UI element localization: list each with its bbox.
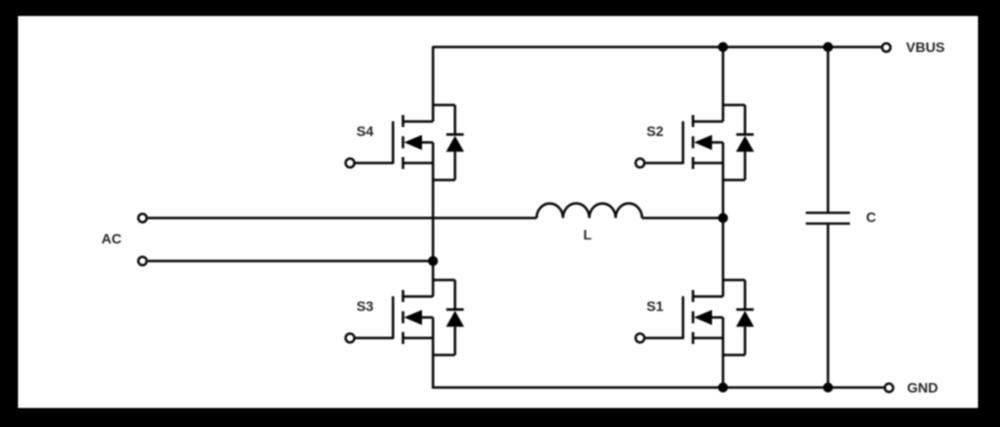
S4 gate terminal circle bbox=[346, 159, 355, 168]
wire S1 diode bottom connection bbox=[722, 354, 745, 357]
S4 channel dash (source) bbox=[402, 157, 405, 169]
transistor S1 (N-MOSFET) bbox=[636, 280, 754, 355]
junction S4/S3 midpoint node bbox=[428, 256, 438, 266]
wire S4 diode bottom connection bbox=[432, 179, 455, 182]
wire S1 body-to-source bbox=[722, 317, 725, 338]
svg-text:GND: GND bbox=[907, 380, 938, 396]
wire inductor to S2/S1 node bbox=[642, 217, 723, 220]
wire S3 source lead bbox=[403, 337, 433, 340]
S2 body diode cathode bar bbox=[736, 133, 753, 135]
inductor L bbox=[537, 203, 642, 218]
junction capacitor on GND rail bbox=[823, 383, 833, 393]
S2 channel dash (drain) bbox=[692, 115, 695, 127]
AC terminal 1 (line) bbox=[138, 214, 146, 222]
wire S2 diode anode lead bbox=[744, 152, 747, 180]
S4 body diode cathode bar bbox=[446, 133, 463, 135]
wire S2 diode bottom connection bbox=[722, 179, 745, 182]
S3 channel dash (body) bbox=[402, 311, 405, 323]
junction S2/S1 midpoint node bbox=[718, 213, 728, 223]
S3 body arrow (points to channel) bbox=[404, 310, 422, 325]
S2 gate terminal circle bbox=[636, 159, 645, 168]
wire VBUS top rail bbox=[432, 46, 882, 49]
wire S3 diode bottom connection bbox=[432, 354, 455, 357]
S2 channel dash (body) bbox=[692, 136, 695, 148]
svg-text:C: C bbox=[866, 209, 876, 225]
wire S4 gate lead bbox=[355, 162, 393, 165]
svg-text:S1: S1 bbox=[646, 298, 663, 314]
svg-text:S2: S2 bbox=[646, 123, 663, 139]
wire S1 source lead bbox=[693, 337, 723, 340]
svg-text:S3: S3 bbox=[356, 298, 373, 314]
wire S3 source to bottom rail bbox=[432, 338, 435, 389]
S4 channel dash (body) bbox=[402, 136, 405, 148]
S3 channel dash (source) bbox=[402, 332, 405, 344]
wire S2 gate lead bbox=[645, 162, 683, 165]
transistor S2 (N-MOSFET) bbox=[636, 105, 754, 180]
S4 body arrow (points to channel) bbox=[404, 135, 422, 150]
S1 gate bar bbox=[682, 296, 685, 339]
S1 body diode triangle bbox=[736, 311, 754, 327]
wire S1 diode cathode lead bbox=[744, 280, 747, 310]
S1 gate terminal circle bbox=[636, 334, 645, 343]
S3 body diode triangle bbox=[446, 311, 464, 327]
wire AC neutral to S4/S3 node bbox=[148, 260, 433, 263]
S1 channel dash (body) bbox=[692, 311, 695, 323]
wire S1 source to bottom rail bbox=[722, 338, 725, 389]
capacitor C bottom plate bbox=[806, 222, 850, 224]
wire S2 source lead bbox=[693, 162, 723, 165]
S1 channel dash (drain) bbox=[692, 290, 695, 302]
S2 gate bar bbox=[682, 121, 685, 164]
S3 channel dash (drain) bbox=[402, 290, 405, 302]
wire S3 body lead bbox=[419, 316, 433, 319]
wire S4 source to S3 drain bbox=[432, 163, 435, 297]
S3 gate terminal circle bbox=[346, 334, 355, 343]
wire S1 diode top connection bbox=[722, 279, 745, 282]
wire S3 diode anode lead bbox=[454, 327, 457, 355]
S1 channel dash (source) bbox=[692, 332, 695, 344]
wire S2 drain lead bbox=[693, 120, 723, 123]
wire S4 drain lead bbox=[403, 120, 433, 123]
wire S4 diode top connection bbox=[432, 104, 455, 107]
wire S1 gate lead bbox=[645, 337, 683, 340]
svg-text:VBUS: VBUS bbox=[906, 39, 945, 55]
S3 body diode cathode bar bbox=[446, 308, 463, 310]
S2 body arrow (points to channel) bbox=[694, 135, 712, 150]
S4 gate bar bbox=[392, 121, 395, 164]
junction S1 source on GND rail bbox=[718, 383, 728, 393]
wire S4 body-to-source bbox=[432, 142, 435, 163]
S3 gate bar bbox=[392, 296, 395, 339]
wire S3 diode top connection bbox=[432, 279, 455, 282]
wire S2 drain branch bbox=[722, 47, 725, 122]
S4 body diode triangle bbox=[446, 136, 464, 152]
wire S4 diode anode lead bbox=[454, 152, 457, 180]
wire S2 diode top connection bbox=[722, 104, 745, 107]
transistor S4 (N-MOSFET) bbox=[346, 105, 464, 180]
wire S2 body lead bbox=[709, 141, 723, 144]
wire S4 drain branch bbox=[432, 47, 435, 122]
wire S1 drain lead bbox=[693, 295, 723, 298]
svg-text:L: L bbox=[583, 227, 592, 243]
GND terminal bbox=[885, 384, 893, 392]
wire S4 body lead bbox=[419, 141, 433, 144]
S2 channel dash (source) bbox=[692, 157, 695, 169]
VBUS terminal bbox=[882, 43, 890, 51]
junction capacitor on VBUS rail bbox=[823, 42, 833, 52]
capacitor C top plate bbox=[806, 212, 850, 214]
wire S4 source lead bbox=[403, 162, 433, 165]
wire S3 diode cathode lead bbox=[454, 280, 457, 310]
wire S2 body-to-source bbox=[722, 142, 725, 163]
wire S4 diode cathode lead bbox=[454, 105, 457, 135]
transistor S3 (N-MOSFET) bbox=[346, 280, 464, 355]
S2 body diode triangle bbox=[736, 136, 754, 152]
wire capacitor bottom lead bbox=[827, 224, 830, 387]
wire S2 source to S1 drain bbox=[722, 163, 725, 297]
S1 body diode cathode bar bbox=[736, 308, 753, 310]
wire capacitor top lead bbox=[827, 47, 830, 212]
wire S3 body-to-source bbox=[432, 317, 435, 338]
wire S3 drain lead bbox=[403, 295, 433, 298]
S4 channel dash (drain) bbox=[402, 115, 405, 127]
junction S2 drain on VBUS rail bbox=[718, 42, 728, 52]
wire S1 body lead bbox=[709, 316, 723, 319]
wire S3 gate lead bbox=[355, 337, 393, 340]
svg-text:AC: AC bbox=[101, 231, 121, 247]
wire AC line to inductor bbox=[148, 217, 537, 220]
wire S1 diode anode lead bbox=[744, 327, 747, 355]
AC terminal 2 (neutral) bbox=[138, 257, 146, 265]
wire GND bottom rail bbox=[432, 386, 885, 389]
S1 body arrow (points to channel) bbox=[694, 310, 712, 325]
svg-text:S4: S4 bbox=[356, 123, 373, 139]
wire S2 diode cathode lead bbox=[744, 105, 747, 135]
